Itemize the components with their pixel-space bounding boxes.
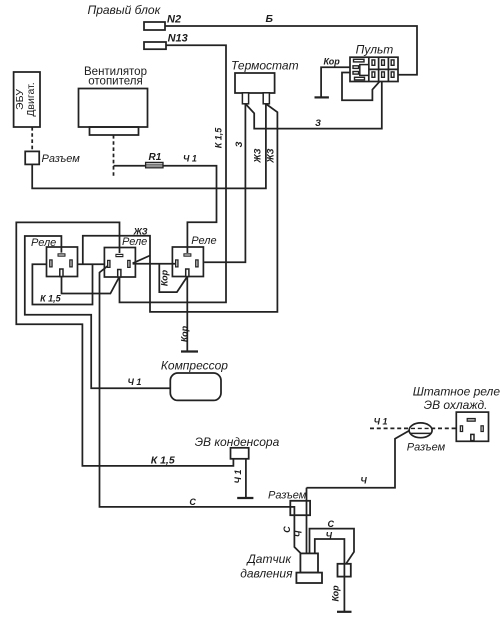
- svg-text:Двигат.: Двигат.: [25, 82, 37, 116]
- svg-text:С: С: [328, 519, 335, 529]
- svg-text:N2: N2: [167, 13, 181, 25]
- svg-text:Кор: Кор: [160, 269, 170, 286]
- svg-text:Разъем: Разъем: [268, 490, 307, 502]
- svg-text:ЖЗ: ЖЗ: [253, 148, 263, 163]
- svg-text:ЖЗ: ЖЗ: [266, 148, 276, 163]
- svg-text:ЭВ охлажд.: ЭВ охлажд.: [424, 398, 488, 412]
- svg-text:С: С: [282, 526, 292, 533]
- svg-text:Ч 1: Ч 1: [233, 470, 243, 484]
- svg-text:Б: Б: [266, 13, 274, 25]
- svg-text:Ч: Ч: [360, 476, 367, 486]
- svg-text:Ч: Ч: [326, 530, 333, 540]
- svg-text:Ч: Ч: [294, 530, 304, 537]
- svg-text:Кор: Кор: [331, 585, 341, 602]
- svg-text:Датчик: Датчик: [245, 552, 292, 566]
- svg-text:Реле: Реле: [122, 236, 147, 248]
- svg-text:N13: N13: [168, 33, 188, 45]
- svg-text:З: З: [234, 141, 244, 147]
- svg-text:давления: давления: [240, 567, 293, 581]
- svg-text:ЭВ конденсора: ЭВ конденсора: [195, 435, 280, 449]
- svg-text:Реле: Реле: [31, 237, 56, 249]
- svg-text:Ч 1: Ч 1: [128, 377, 142, 387]
- svg-text:Разъем: Разъем: [407, 442, 446, 454]
- svg-text:К 1,5: К 1,5: [213, 127, 223, 149]
- svg-text:К 1,5: К 1,5: [40, 294, 62, 304]
- svg-text:Штатное реле: Штатное реле: [413, 384, 500, 398]
- svg-text:Ч 1: Ч 1: [183, 153, 197, 163]
- svg-text:К 1,5: К 1,5: [151, 455, 175, 467]
- svg-text:Кор: Кор: [180, 325, 190, 342]
- svg-text:Правый блок: Правый блок: [88, 3, 162, 17]
- svg-text:Разъем: Разъем: [42, 153, 81, 165]
- svg-text:Компрессор: Компрессор: [161, 359, 228, 373]
- svg-text:Реле: Реле: [191, 235, 216, 247]
- svg-text:R1: R1: [149, 152, 162, 163]
- svg-text:Пульт: Пульт: [356, 42, 394, 56]
- svg-text:отопителя: отопителя: [88, 75, 142, 87]
- svg-text:Кор: Кор: [324, 56, 341, 66]
- svg-text:З: З: [315, 118, 321, 128]
- svg-text:С: С: [189, 497, 196, 507]
- svg-text:Ч 1: Ч 1: [374, 416, 388, 426]
- svg-text:Термостат: Термостат: [231, 58, 299, 72]
